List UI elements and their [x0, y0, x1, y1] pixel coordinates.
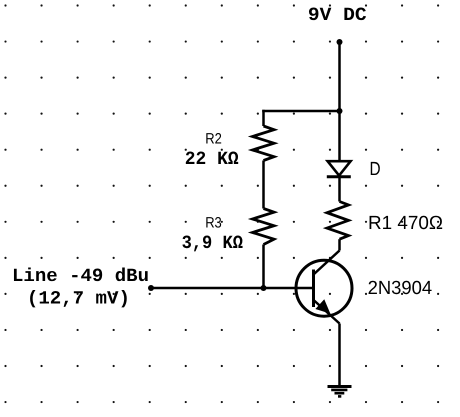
- wire R3 bottom to base net junction: [262, 245, 265, 289]
- svg-text:22 KΩ: 22 KΩ: [185, 148, 239, 170]
- svg-text:9V DC: 9V DC: [308, 4, 367, 26]
- diode D: [327, 161, 351, 177]
- svg-text:2N3904: 2N3904: [368, 278, 433, 299]
- node 9V terminal dot: [337, 39, 343, 45]
- wire horizontal from junction to divider branch: [262, 110, 339, 113]
- resistor R1: [327, 202, 349, 240]
- wire collector diagonal: [314, 251, 340, 275]
- junction dot divider to base: [261, 285, 267, 291]
- junction dot rail to divider branch: [337, 108, 343, 114]
- input terminal dot: [148, 285, 154, 291]
- wire divider branch down to R2 top: [262, 110, 265, 126]
- wire emitter to ground: [338, 324, 341, 387]
- transistor Q1 2N3904: [296, 260, 352, 323]
- resistor R2: [253, 126, 275, 161]
- wire R2 bottom to R3 top: [262, 161, 265, 209]
- svg-text:Line -49 dBu: Line -49 dBu: [12, 265, 149, 287]
- wire input line to base: [151, 287, 314, 290]
- svg-text:3,9 KΩ: 3,9 KΩ: [182, 232, 243, 254]
- svg-text:R3: R3: [205, 215, 222, 232]
- wire 9V rail from terminal to diode anode: [338, 42, 341, 161]
- svg-text:R1 470Ω: R1 470Ω: [368, 213, 443, 234]
- resistor R3: [253, 209, 275, 245]
- ground: [328, 387, 352, 397]
- wire R1 bottom to collector bend: [338, 239, 341, 250]
- wire diode cathode to R1 top: [338, 177, 341, 202]
- svg-text:(12,7 mV): (12,7 mV): [27, 287, 130, 309]
- svg-text:D: D: [370, 159, 381, 180]
- svg-text:R2: R2: [205, 131, 222, 148]
